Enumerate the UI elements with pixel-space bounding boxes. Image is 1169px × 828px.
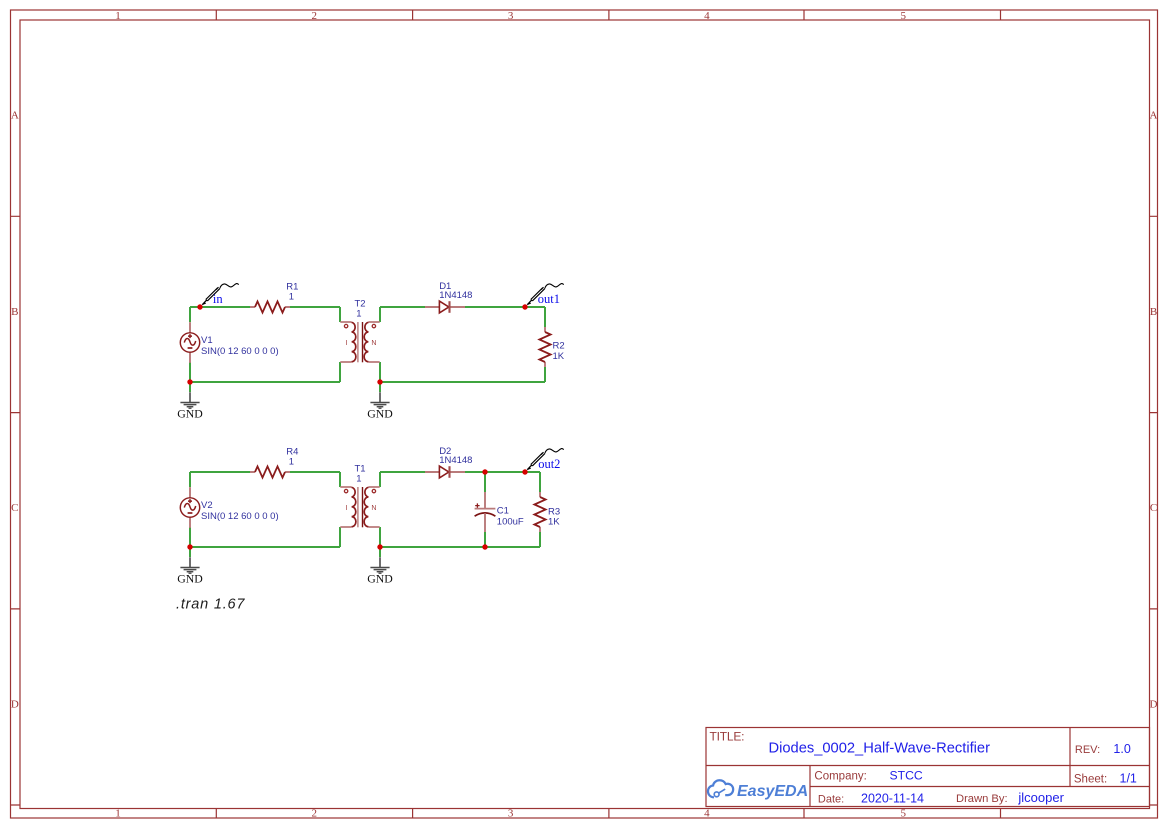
- svg-text:V1: V1: [201, 335, 213, 346]
- svg-text:4: 4: [704, 808, 710, 820]
- svg-text:3: 3: [508, 808, 514, 820]
- svg-text:Drawn By:: Drawn By:: [956, 793, 1008, 805]
- svg-text:Company:: Company:: [814, 770, 866, 782]
- svg-text:1: 1: [356, 309, 361, 320]
- svg-text:EasyEDA: EasyEDA: [737, 783, 808, 800]
- svg-text:1N4148: 1N4148: [439, 290, 472, 301]
- svg-text:1/1: 1/1: [1120, 771, 1137, 785]
- svg-text:2020-11-14: 2020-11-14: [861, 791, 924, 805]
- svg-text:1: 1: [289, 292, 294, 303]
- svg-text:100uF: 100uF: [497, 517, 524, 528]
- svg-text:D: D: [1150, 699, 1158, 711]
- svg-text:.tran 1.67: .tran 1.67: [176, 596, 245, 612]
- svg-text:GND: GND: [177, 406, 203, 420]
- svg-text:3: 3: [508, 10, 514, 22]
- svg-text:GND: GND: [177, 571, 203, 585]
- svg-text:1N4148: 1N4148: [439, 455, 472, 466]
- svg-text:jlcooper: jlcooper: [1017, 790, 1064, 805]
- svg-text:GND: GND: [367, 571, 393, 585]
- svg-text:1: 1: [289, 457, 294, 468]
- svg-text:out2: out2: [538, 457, 560, 471]
- svg-text:TITLE:: TITLE:: [710, 730, 745, 744]
- svg-text:2: 2: [312, 808, 318, 820]
- svg-text:SIN(0 12 60 0 0 0): SIN(0 12 60 0 0 0): [201, 346, 279, 357]
- svg-text:D: D: [11, 699, 19, 711]
- svg-text:B: B: [1150, 306, 1157, 318]
- svg-text:Sheet:: Sheet:: [1074, 773, 1107, 785]
- svg-text:C: C: [11, 502, 18, 514]
- svg-text:Date:: Date:: [818, 793, 844, 805]
- svg-text:5: 5: [900, 808, 906, 820]
- svg-text:C: C: [1150, 502, 1157, 514]
- svg-text:STCC: STCC: [890, 768, 923, 782]
- svg-text:1K: 1K: [548, 517, 560, 528]
- svg-text:1: 1: [115, 10, 121, 22]
- svg-text:Diodes_0002_Half-Wave-Rectifie: Diodes_0002_Half-Wave-Rectifier: [769, 740, 991, 756]
- svg-text:A: A: [11, 110, 19, 122]
- svg-text:in: in: [213, 292, 223, 306]
- svg-text:1: 1: [356, 474, 361, 485]
- svg-text:SIN(0 12 60 0 0 0): SIN(0 12 60 0 0 0): [201, 511, 279, 522]
- svg-text:1.0: 1.0: [1113, 742, 1130, 756]
- svg-text:B: B: [11, 306, 18, 318]
- svg-text:5: 5: [900, 10, 906, 22]
- svg-text:C1: C1: [497, 505, 509, 516]
- svg-text:1K: 1K: [553, 351, 565, 362]
- svg-text:R2: R2: [553, 340, 565, 351]
- svg-text:A: A: [1150, 110, 1158, 122]
- svg-text:REV:: REV:: [1075, 744, 1100, 756]
- svg-text:V2: V2: [201, 500, 213, 511]
- svg-text:1: 1: [115, 808, 121, 820]
- svg-text:4: 4: [704, 10, 710, 22]
- svg-text:GND: GND: [367, 406, 393, 420]
- svg-text:2: 2: [312, 10, 318, 22]
- svg-text:out1: out1: [538, 292, 560, 306]
